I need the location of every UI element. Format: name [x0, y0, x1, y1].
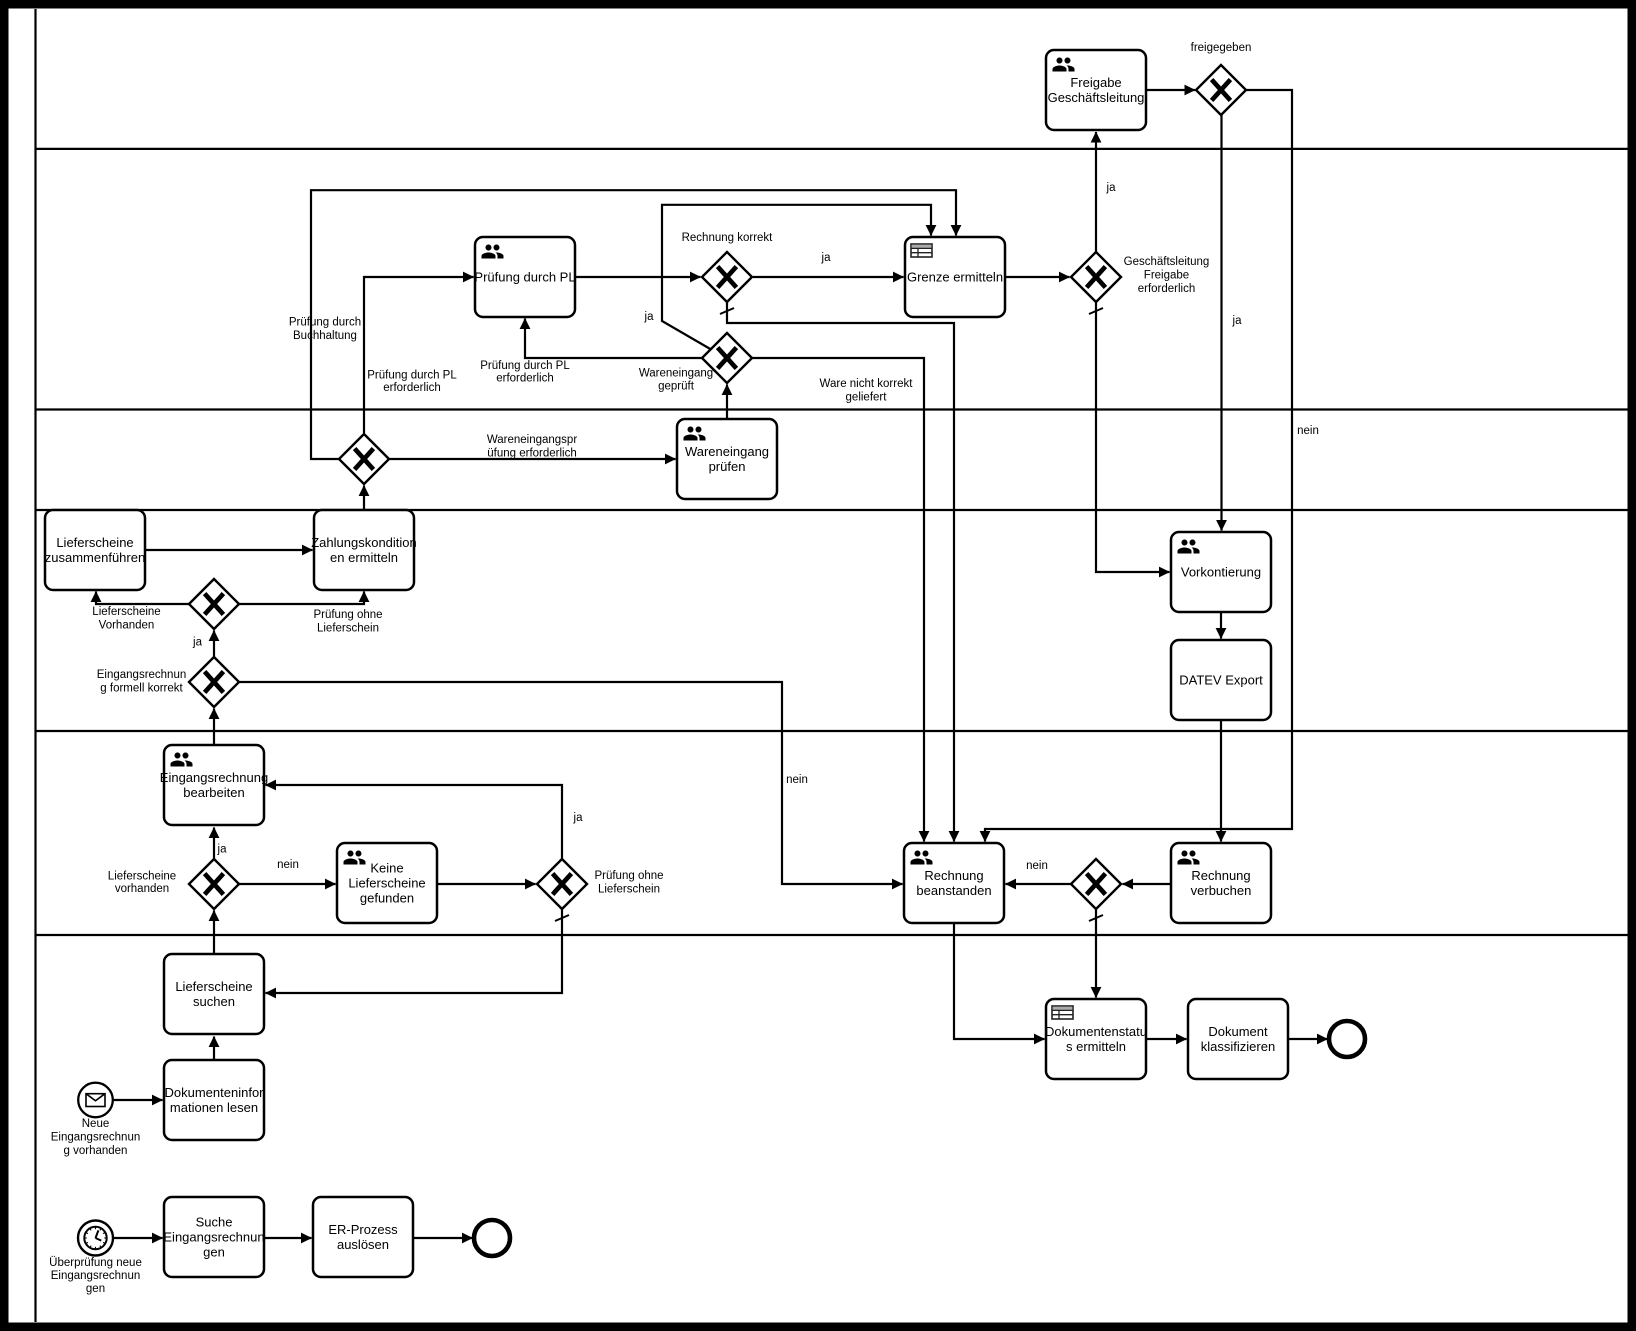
- svg-text:g vorhanden: g vorhanden: [64, 1145, 128, 1157]
- svg-text:erforderlich: erforderlich: [383, 382, 441, 394]
- task: Rechnung verbuchen: [1171, 843, 1271, 923]
- svg-text:auslösen: auslösen: [337, 1237, 389, 1252]
- svg-text:suchen: suchen: [193, 994, 235, 1009]
- svg-text:ja: ja: [192, 637, 203, 649]
- svg-text:Rechnung: Rechnung: [1191, 868, 1250, 883]
- label: nein (-> Keine Lieferscheine gefunden): [277, 859, 299, 871]
- flow: Freigabe Geschaeftsleitung -> freigegeben gateway: [1146, 89, 1195, 91]
- svg-text:nein: nein: [277, 859, 299, 871]
- task: Lieferscheine suchen: [164, 954, 264, 1034]
- svg-text:ja: ja: [644, 311, 655, 323]
- label: Ware nicht korrekt geliefert: [820, 378, 914, 404]
- svg-text:ER-Prozess: ER-Prozess: [328, 1222, 398, 1237]
- svg-text:Vorhanden: Vorhanden: [99, 620, 155, 632]
- flow: Rechnung korrekt ja -> Grenze ermitteln: [753, 276, 904, 278]
- task: Grenze ermitteln (business rule): [905, 237, 1005, 317]
- svg-text:Lieferschein: Lieferschein: [317, 623, 379, 635]
- svg-text:üfung erforderlich: üfung erforderlich: [487, 448, 577, 460]
- svg-text:Eingangsrechnun: Eingangsrechnun: [51, 1132, 141, 1144]
- flow: Rechnung verbuchen -> nein gateway: [1123, 883, 1172, 885]
- label: nein (formell korrekt -> Rechnung beanstanden): [786, 774, 808, 786]
- svg-text:vorhanden: vorhanden: [115, 883, 169, 895]
- svg-text:ja: ja: [1232, 315, 1243, 327]
- svg-text:ja: ja: [217, 844, 228, 856]
- label: ja (freigegeben -> Vorkontierung): [1232, 315, 1243, 327]
- svg-text:Zahlungskondition: Zahlungskondition: [311, 535, 417, 550]
- svg-text:Prüfung durch PL: Prüfung durch PL: [474, 270, 575, 285]
- svg-text:beanstanden: beanstanden: [916, 883, 991, 898]
- lane divider 1: [35, 148, 1628, 150]
- svg-text:zusammenführen: zusammenführen: [45, 550, 145, 565]
- flow: nein gateway -> Rechnung beanstanden: [1006, 883, 1072, 885]
- svg-text:g formell korrekt: g formell korrekt: [100, 683, 183, 695]
- task: DATEV Export: [1171, 640, 1271, 720]
- svg-text:nein: nein: [1026, 860, 1048, 872]
- label: Pruefung durch PL erforderlich (mitte): [480, 360, 570, 385]
- svg-text:nein: nein: [1297, 425, 1319, 437]
- flow: Wareneingang geprueft ja -> Grenze ermitteln: [662, 205, 931, 350]
- label: Wareneingangspruefung erforderlich: [487, 434, 578, 460]
- flow: Eingangsrechnung-formell-korrekt nein -> Rechnung beanstanden: [239, 682, 903, 884]
- start event: message (Neue Eingangsrechnung vorhanden): [78, 1083, 113, 1118]
- svg-text:bearbeiten: bearbeiten: [183, 785, 244, 800]
- flow: Pruefung durch PL -> Rechnung korrekt gateway: [575, 276, 701, 278]
- end event: after Dokument klassifizieren: [1329, 1021, 1365, 1057]
- svg-text:Dokumentenstatu: Dokumentenstatu: [1045, 1024, 1147, 1039]
- svg-text:Eingangsrechnun: Eingangsrechnun: [51, 1270, 141, 1282]
- label: ja (formell korrekt -> Lieferscheine Vorhanden): [192, 637, 203, 649]
- flow: Wareneingang pruefen -> Wareneingang geprueft gateway: [726, 385, 728, 420]
- svg-text:Überprüfung neue: Überprüfung neue: [49, 1257, 142, 1269]
- flow: Wareneingang geprueft -> Pruefung durch PL (Pruefung durch PL erforderlich): [525, 319, 702, 359]
- flow: ER-Prozess ausloesen -> end event: [413, 1237, 473, 1239]
- svg-text:freigegeben: freigegeben: [1191, 42, 1252, 54]
- flow: Rechnung korrekt default -> Rechnung beanstanden: [720, 302, 954, 842]
- svg-text:ja: ja: [1106, 182, 1117, 194]
- flow: Pruefung-ohne-Lieferschein ja -> Eingangsrechnung bearbeiten: [266, 785, 563, 859]
- task: Freigabe Geschaeftsleitung: [1046, 50, 1146, 130]
- label: Pruefung durch Buchhaltung: [289, 317, 361, 343]
- flow: Pruefung-ohne-Lieferschein default -> Lieferscheine suchen: [266, 909, 570, 993]
- flow: Geschaeftsleitung-Freigabe-erforderlich gateway ja -> Freigabe Geschaeftsleitung: [1095, 132, 1097, 252]
- flow: DATEV Export -> Rechnung verbuchen: [1220, 720, 1222, 842]
- svg-text:s ermitteln: s ermitteln: [1066, 1039, 1126, 1054]
- label: ja (Rechnung korrekt -> Grenze): [821, 252, 832, 264]
- flow: Eingangsrechnung bearbeiten -> Eingangsrechnung-formell-korrekt gateway: [213, 709, 215, 746]
- label: Neue Eingangsrechnung vorhanden: [51, 1118, 141, 1157]
- end event: after ER-Prozess ausloesen: [474, 1220, 510, 1256]
- svg-text:prüfen: prüfen: [709, 459, 746, 474]
- svg-text:Prüfung durch PL: Prüfung durch PL: [480, 360, 570, 372]
- svg-text:en ermitteln: en ermitteln: [330, 550, 398, 565]
- flow: Vorkontierung -> DATEV Export: [1220, 612, 1222, 639]
- task: Suche Eingangsrechnungen: [163, 1197, 264, 1277]
- svg-text:Lieferscheine: Lieferscheine: [56, 535, 133, 550]
- svg-text:Eingangsrechnun: Eingangsrechnun: [163, 1230, 264, 1245]
- gateway: Geschaeftsleitung Freigabe erforderlich (exclusive): [1071, 252, 1121, 302]
- svg-text:geprüft: geprüft: [658, 381, 695, 393]
- svg-text:Geschäftsleitung: Geschäftsleitung: [1048, 90, 1145, 105]
- gateway: Wareneingang geprueft (exclusive): [702, 333, 752, 383]
- flow: Dokument klassifizieren -> end event: [1288, 1038, 1328, 1040]
- label: Ueberpruefung neue Eingangsrechnungen: [49, 1257, 142, 1295]
- svg-text:Freigabe: Freigabe: [1070, 75, 1121, 90]
- lane divider 3: [35, 509, 1628, 511]
- svg-text:Ware nicht korrekt: Ware nicht korrekt: [820, 378, 914, 390]
- flow: Wareneingangspruefung gateway -> Pruefung durch PL (erforderlich): [364, 277, 474, 433]
- lane divider 2: [35, 408, 1628, 410]
- svg-text:nein: nein: [786, 774, 808, 786]
- flow: Zahlungskonditionen ermitteln -> Wareneingangspruefung gateway: [363, 486, 365, 511]
- svg-text:Lieferscheine: Lieferscheine: [108, 871, 176, 883]
- label: ja (to Freigabe Geschaeftsleitung): [1106, 182, 1117, 194]
- svg-text:Rechnung: Rechnung: [924, 868, 983, 883]
- flow: Wareneingangspruefung gateway -> Wareneingang pruefen: [389, 458, 676, 460]
- svg-text:Dokument: Dokument: [1208, 1024, 1268, 1039]
- start event: timer (Ueberpruefung neue Eingangsrechnungen): [78, 1221, 113, 1256]
- label: nein (freigegeben -> Rechnung beanstanden): [1297, 425, 1319, 437]
- task: Dokumentenstatus ermitteln (business rule): [1045, 999, 1147, 1079]
- svg-text:ja: ja: [821, 252, 832, 264]
- svg-text:ja: ja: [573, 812, 584, 824]
- flow: Lieferscheine-vorhanden nein -> Keine Lieferscheine gefunden: [239, 883, 336, 885]
- flow: Suche Eingangsrechnungen -> ER-Prozess ausloesen: [264, 1237, 312, 1239]
- svg-text:geliefert: geliefert: [846, 392, 888, 404]
- svg-text:Rechnung korrekt: Rechnung korrekt: [682, 232, 774, 244]
- svg-text:Freigabe: Freigabe: [1144, 270, 1189, 282]
- flow: Geschaeftsleitung-Freigabe-erforderlich default -> Vorkontierung: [1089, 302, 1170, 572]
- svg-text:gen: gen: [86, 1283, 105, 1295]
- label: Lieferscheine vorhanden: [108, 871, 176, 896]
- svg-text:Eingangsrechnun: Eingangsrechnun: [97, 669, 187, 681]
- gateway: Rechnung verbucht nein (exclusive): [1071, 859, 1121, 909]
- label: ja (Pruefung ohne Lieferschein -> bearbeiten): [573, 812, 584, 824]
- flow: Lieferscheine suchen -> Lieferscheine-vorhanden gateway: [213, 911, 215, 955]
- svg-text:Vorkontierung: Vorkontierung: [1181, 565, 1261, 580]
- label: ja (Lieferscheine vorhanden -> bearbeiten): [217, 844, 228, 856]
- flow: Lieferscheine zusammenfuehren -> Zahlungskonditionen ermitteln: [145, 549, 313, 551]
- svg-text:DATEV Export: DATEV Export: [1179, 673, 1263, 688]
- task: ER-Prozess ausloesen: [313, 1197, 413, 1277]
- svg-text:Lieferscheine: Lieferscheine: [175, 979, 252, 994]
- svg-text:Keine: Keine: [370, 860, 403, 875]
- svg-text:Wareneingang: Wareneingang: [639, 368, 713, 380]
- task: Wareneingang pruefen: [677, 419, 777, 499]
- gateway: Eingangsrechnung formell korrekt (exclusive): [189, 657, 239, 707]
- svg-text:gen: gen: [203, 1245, 225, 1260]
- lane divider 5: [35, 934, 1628, 936]
- label: Geschaeftsleitung Freigabe erforderlich: [1124, 256, 1210, 295]
- svg-text:Geschäftsleitung: Geschäftsleitung: [1124, 256, 1210, 268]
- label: Wareneingang geprueft: [639, 368, 713, 393]
- flow: Dokumenteninformationen lesen -> Lieferscheine suchen: [213, 1037, 215, 1061]
- flow: Lieferscheine-Vorhanden gateway -> Zahlungskonditionen ermitteln (Pruefung ohne Lieferschein): [239, 592, 364, 605]
- task: Rechnung beanstanden: [904, 843, 1004, 923]
- task: Vorkontierung: [1171, 532, 1271, 612]
- svg-text:mationen lesen: mationen lesen: [170, 1100, 258, 1115]
- task: Lieferscheine zusammenfuehren: [45, 510, 145, 590]
- label: Pruefung durch PL erforderlich (links): [367, 370, 457, 395]
- label: Lieferscheine Vorhanden: [92, 606, 160, 632]
- flow: freigegeben gateway nein -> Rechnung beanstanden: [985, 90, 1292, 842]
- gateway: freigegeben (exclusive): [1196, 65, 1246, 115]
- svg-text:erforderlich: erforderlich: [1138, 283, 1196, 295]
- svg-text:Eingangsrechnung: Eingangsrechnung: [160, 770, 268, 785]
- flow: nein gateway default -> Dokumentenstatus ermitteln: [1089, 909, 1103, 998]
- task: Zahlungskonditionen ermitteln: [311, 510, 417, 590]
- svg-text:Prüfung ohne: Prüfung ohne: [594, 870, 663, 882]
- flow: freigegeben gateway ja -> Vorkontierung: [1220, 115, 1222, 531]
- svg-text:Grenze ermitteln: Grenze ermitteln: [907, 270, 1003, 285]
- task: Eingangsrechnung bearbeiten: [160, 745, 268, 825]
- label: nein (-> Rechnung beanstanden): [1026, 860, 1048, 872]
- flow: Keine Lieferscheine gefunden -> Pruefung-ohne-Lieferschein gateway: [438, 883, 536, 885]
- flow: message start -> Dokumenteninformationen lesen: [113, 1099, 163, 1101]
- gateway: Rechnung korrekt (exclusive): [702, 252, 752, 302]
- gateway: Lieferscheine vorhanden (exclusive): [189, 859, 239, 909]
- label: Pruefung ohne Lieferschein (oben): [313, 609, 382, 635]
- label: Pruefung ohne Lieferschein (unten): [594, 870, 663, 896]
- svg-text:Prüfung durch PL: Prüfung durch PL: [367, 370, 457, 382]
- flow: Dokumentenstatus ermitteln -> Dokument klassifizieren: [1146, 1038, 1187, 1040]
- pool left border: [34, 9, 36, 1322]
- svg-text:Wareneingang: Wareneingang: [685, 444, 769, 459]
- flow: Eingangsrechnung-formell-korrekt ja -> Lieferscheine-Vorhanden gateway: [213, 631, 215, 658]
- gateway: Wareneingangspruefung erforderlich (exclusive): [339, 434, 389, 484]
- svg-text:Lieferschein: Lieferschein: [598, 884, 660, 896]
- svg-text:erforderlich: erforderlich: [496, 373, 554, 385]
- flow: timer start -> Suche Eingangsrechnungen: [114, 1237, 163, 1239]
- flow: Rechnung beanstanden -> Dokumentenstatus ermitteln: [954, 923, 1045, 1039]
- svg-text:Buchhaltung: Buchhaltung: [293, 330, 357, 342]
- gateway: Pruefung ohne Lieferschein (exclusive): [537, 859, 587, 909]
- task: Dokumenteninformationen lesen: [164, 1060, 264, 1140]
- flow: Lieferscheine-vorhanden ja -> Eingangsrechnung bearbeiten: [213, 828, 215, 860]
- svg-text:Suche: Suche: [196, 1214, 233, 1229]
- svg-text:gefunden: gefunden: [360, 891, 414, 906]
- flow: Wareneingang geprueft -> Rechnung beanstanden (Ware nicht korrekt geliefert): [752, 358, 924, 842]
- svg-text:verbuchen: verbuchen: [1191, 883, 1252, 898]
- svg-text:Prüfung durch: Prüfung durch: [289, 317, 361, 329]
- gateway: Lieferscheine Vorhanden (exclusive): [189, 579, 239, 629]
- flow: Lieferscheine-Vorhanden gateway -> Lieferscheine zusammenfuehren: [96, 592, 189, 605]
- lane divider 4: [35, 730, 1628, 732]
- label: ja (Wareneingang geprueft -> Grenze): [644, 311, 655, 323]
- svg-text:Lieferscheine: Lieferscheine: [348, 876, 425, 891]
- label: Rechnung korrekt: [682, 232, 774, 244]
- task: Keine Lieferscheine gefunden: [337, 843, 437, 923]
- label: Eingangsrechnung formell korrekt: [97, 669, 187, 695]
- svg-text:Lieferscheine: Lieferscheine: [92, 606, 160, 618]
- svg-text:Prüfung ohne: Prüfung ohne: [313, 609, 382, 621]
- label: freigegeben: [1191, 42, 1252, 54]
- svg-text:Wareneingangspr: Wareneingangspr: [487, 434, 578, 446]
- flow: Grenze ermitteln -> Geschaeftsleitung-Freigabe-erforderlich gateway: [1005, 276, 1070, 278]
- svg-text:Dokumenteninfor: Dokumenteninfor: [165, 1085, 265, 1100]
- task: Dokument klassifizieren: [1188, 999, 1288, 1079]
- svg-text:Neue: Neue: [82, 1118, 110, 1130]
- svg-text:klassifizieren: klassifizieren: [1201, 1039, 1275, 1054]
- flow: Wareneingangspruefung gateway -> Grenze ermitteln (Pruefung durch Buchhaltung): [311, 190, 956, 459]
- task: Pruefung durch PL: [474, 237, 575, 317]
